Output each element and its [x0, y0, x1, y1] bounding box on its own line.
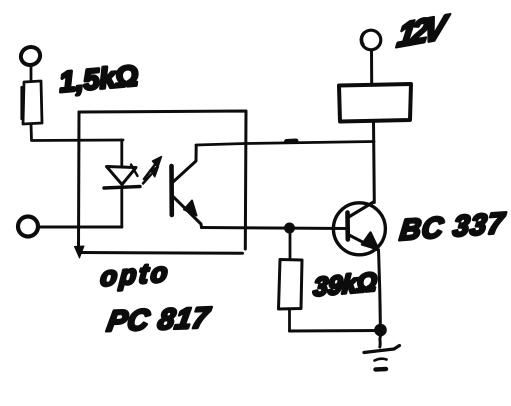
- ground bar 2: [375, 359, 387, 361]
- relay K1 box: [339, 84, 411, 122]
- wire R1 to opto box (corner): [31, 124, 123, 141]
- Q1 emitter diagonal: [349, 235, 377, 250]
- optocoupler U1 PC817 box: [79, 111, 246, 249]
- wire J3 to relay K1: [370, 50, 373, 84]
- LED cathode wire: [120, 187, 123, 227]
- phototransistor base bar: [169, 166, 174, 215]
- svg-text:1,5kΩ: 1,5kΩ: [58, 60, 140, 99]
- bottom wire R2 to ground node: [290, 329, 381, 333]
- wire R2 to bottom wire: [288, 309, 291, 331]
- wire junction to R2: [289, 231, 292, 260]
- wire opto collector to relay lead: [196, 142, 374, 146]
- ground bar 3: [376, 367, 387, 372]
- ground stem: [378, 336, 382, 347]
- wire J1 to R1: [30, 67, 33, 81]
- transistor Q1 BC337 circle: [333, 203, 385, 255]
- wire opto emitter to Q1 base: [202, 228, 347, 229]
- svg-text:opto: opto: [100, 256, 172, 292]
- terminal J3 (12V): [361, 30, 381, 50]
- terminal J2 (input bottom-left): [18, 217, 38, 237]
- phototransistor collector: [173, 146, 196, 183]
- svg-text:39kΩ: 39kΩ: [313, 266, 378, 302]
- Q1 base bar: [345, 213, 350, 240]
- LED light arrow 1: [144, 165, 155, 180]
- resistor R1 1,5k: [23, 81, 42, 124]
- junction node base/R2: [285, 223, 295, 233]
- resistor R2 39k: [279, 260, 303, 310]
- LED light arrow 2: [143, 175, 151, 184]
- Q1 collector diagonal: [350, 202, 374, 217]
- wire J2 to LED cathode: [39, 226, 122, 229]
- svg-text:PC 817: PC 817: [105, 302, 213, 338]
- ground bar 1: [364, 346, 400, 353]
- terminal J1 (input top-left): [18, 44, 43, 68]
- junction node ground: [375, 324, 387, 336]
- svg-text:12V: 12V: [395, 8, 451, 55]
- wire K1 to Q1 collector: [372, 121, 376, 203]
- wire Q1 emitter down to ground node: [379, 250, 381, 330]
- LED D1: [107, 167, 137, 185]
- blob on collector wire: [287, 139, 297, 145]
- svg-text:BC 337: BC 337: [398, 208, 507, 247]
- LED D1 anode wire: [120, 140, 123, 166]
- phototransistor emitter: [173, 197, 202, 228]
